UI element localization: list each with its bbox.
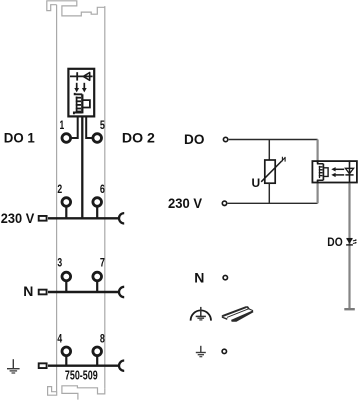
- LED D2 (in box, pointing down): [345, 160, 353, 183]
- svg-text:2: 2: [57, 184, 62, 196]
- ground symbol left: [7, 359, 20, 373]
- module left edge: [56, 5, 58, 393]
- earth jumper contact arc: [119, 361, 124, 371]
- module outline bottom profile: [48, 386, 105, 400]
- varistor diagonal: [261, 161, 282, 182]
- pin to terminal 5: [86, 116, 92, 138]
- 230V wire: [228, 202, 318, 204]
- wire stub terminal 8: [96, 356, 98, 365]
- wire opto box down to 230V line: [317, 180, 319, 203]
- svg-text:7: 7: [100, 258, 105, 270]
- svg-text:DO 1: DO 1: [4, 130, 35, 146]
- terminal 1: [62, 134, 71, 143]
- module outline top profile: [47, 1, 105, 16]
- 230V terminal circle: [222, 201, 226, 205]
- wire stub terminal 3: [65, 281, 67, 291]
- noise-free earth symbol (arc): [191, 307, 211, 321]
- terminal 2: [62, 198, 71, 207]
- terminal 8: [93, 347, 102, 356]
- wire stub terminal 2: [65, 206, 67, 217]
- terminal 3: [62, 272, 71, 281]
- 230V bus wire: [48, 217, 119, 219]
- output end bar: [344, 308, 355, 310]
- opto-triac box U2: [312, 161, 357, 182]
- opto arrows (left): [331, 167, 344, 177]
- wire DO line down to opto box: [317, 140, 319, 164]
- N terminal circle: [223, 275, 227, 279]
- terminal 6: [93, 198, 102, 207]
- svg-text:N: N: [23, 283, 33, 299]
- diode D1 (inside box, pointing left): [70, 72, 93, 80]
- svg-text:6: 6: [100, 184, 105, 196]
- svg-text:1: 1: [60, 120, 65, 132]
- terminal 5: [93, 134, 102, 143]
- earth terminal circle: [222, 349, 226, 353]
- wire varistor to 230V line: [268, 183, 270, 203]
- DIN rail icon: [222, 306, 254, 321]
- varistor RV1 body: [265, 160, 275, 183]
- N bus wire: [48, 291, 119, 293]
- svg-text:230 V: 230 V: [168, 195, 203, 211]
- wire output down (gray): [348, 183, 350, 309]
- svg-text:DO: DO: [327, 237, 342, 249]
- N jumper contact arc: [119, 287, 124, 297]
- svg-text:DO 2: DO 2: [122, 130, 155, 146]
- svg-text:750-509: 750-509: [65, 367, 98, 382]
- triac Q1 (inside box): [74, 93, 90, 114]
- DO terminal circle: [223, 137, 227, 141]
- DO wire: [229, 139, 318, 141]
- component box U1: [68, 69, 94, 117]
- wire center pin to 230V bus: [81, 116, 83, 217]
- varistor tip mark: [282, 157, 286, 162]
- svg-text:8: 8: [100, 333, 105, 345]
- 230V jumper contact arc: [119, 213, 124, 223]
- module right edge: [104, 6, 106, 389]
- pin to terminal 1: [71, 116, 78, 138]
- svg-text:U: U: [252, 176, 261, 190]
- terminal 4: [62, 347, 71, 356]
- svg-text:DO: DO: [184, 131, 205, 147]
- svg-text:3: 3: [57, 258, 62, 270]
- wire stub terminal 6: [96, 206, 98, 217]
- svg-text:4: 4: [57, 333, 62, 345]
- earth feed connector (square): [39, 363, 47, 368]
- status LED D3 (pointing down): [346, 239, 357, 245]
- svg-text:N: N: [194, 269, 204, 285]
- svg-text:5: 5: [100, 120, 105, 132]
- 230V feed connector (square): [39, 216, 47, 221]
- earth bus wire: [48, 365, 119, 367]
- triac Q2 (small, in box): [318, 160, 329, 183]
- ground symbol right: [196, 346, 206, 357]
- wire stub terminal 7: [96, 281, 98, 291]
- N feed connector (square): [39, 290, 47, 295]
- optocoupler arrows (down): [74, 83, 86, 93]
- wire to varistor: [268, 140, 270, 161]
- svg-text:230 V: 230 V: [1, 210, 35, 226]
- wire stub terminal 4: [65, 356, 67, 365]
- terminal 7: [93, 272, 102, 281]
